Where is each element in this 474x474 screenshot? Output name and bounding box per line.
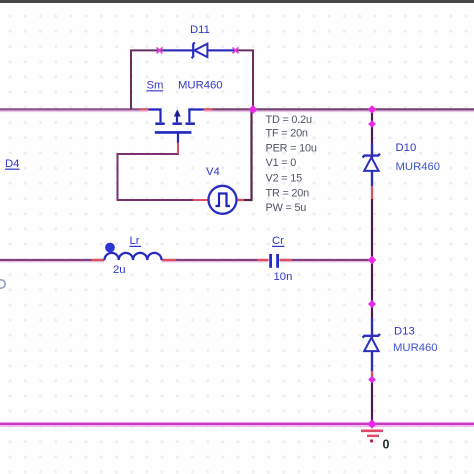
wire bottom net (y=424): [0, 424, 474, 426]
red gate pin segment: [177, 143, 179, 155]
capacitor Cr red pin stubs: [257, 259, 292, 261]
svg-text:PER = 10u: PER = 10u: [266, 142, 317, 154]
svg-text:D4: D4: [5, 158, 19, 170]
inductor Lr red pin stubs: [92, 259, 177, 261]
junction node (372,379.5): [368, 376, 376, 384]
label MUR460 for D13: [393, 342, 438, 354]
label 2u: [113, 264, 126, 276]
wire V4 right branch up to main net: [236, 110, 251, 201]
wire mid net (y=260): [0, 260, 372, 262]
diode D11 leads: [163, 49, 236, 51]
window top bar: [0, 0, 474, 3]
wire gate loop to V4: [118, 144, 209, 201]
label MUR460 for Sm: [178, 80, 223, 92]
wire D11 loop (left vertical, top horizontal, right vertical): [131, 50, 253, 109]
diode D11 cathode bar: [192, 43, 195, 59]
pin marker X left of D11: [157, 47, 163, 53]
junction node bottom (372,424): [367, 419, 376, 428]
label Lr (underlined): [130, 235, 142, 247]
junction node at V4 branch / D11 loop (253,109.5): [249, 105, 258, 114]
diode D10 cathode bar: [363, 154, 380, 158]
wire right vertical branch x=372: [371, 110, 373, 425]
wire main top net right segment (y=109.5): [204, 109, 474, 111]
clipped text glyph at left edge (mid net label): [0, 280, 5, 288]
diode D10 red bottom pin: [371, 186, 373, 199]
junction node (372,304): [368, 300, 376, 308]
svg-text:PW = 5u: PW = 5u: [266, 202, 307, 214]
label D13: [394, 326, 415, 338]
svg-text:MUR460: MUR460: [396, 161, 441, 173]
diode D10 triangle: [364, 157, 378, 171]
svg-text:Cr: Cr: [272, 235, 284, 247]
junction node mid net (372,260): [368, 256, 377, 265]
label 10n: [274, 271, 293, 283]
red V4 right pin segment: [236, 199, 244, 201]
label 0 (ground net): [383, 438, 390, 452]
inductor Lr coil: [105, 253, 162, 260]
red V4 left pin segment: [193, 199, 209, 201]
svg-text:V2 = 15: V2 = 15: [266, 172, 303, 184]
svg-text:V1 = 0: V1 = 0: [266, 157, 297, 169]
svg-text:D10: D10: [396, 142, 417, 154]
svg-text:V4: V4: [206, 166, 220, 178]
svg-text:Lr: Lr: [130, 235, 140, 247]
pin marker X right of D11: [233, 47, 239, 53]
diode D13 cathode bar: [363, 334, 380, 338]
mosfet Sm symbol: [148, 110, 204, 144]
svg-text:2u: 2u: [113, 264, 126, 276]
label MUR460 for D10: [396, 161, 441, 173]
svg-text:D13: D13: [394, 326, 415, 338]
label D11: [190, 24, 210, 36]
svg-text:MUR460: MUR460: [393, 342, 438, 354]
diode D13 red bottom pin: [371, 371, 373, 380]
label D4 (underlined, left edge): [5, 158, 20, 170]
label Sm (underlined): [147, 80, 164, 92]
label Cr (underlined): [272, 235, 285, 247]
mosfet Sm bulk arrow: [174, 109, 181, 116]
wire main top net left segment (y=109.5): [0, 109, 148, 111]
diode D13 leads: [371, 318, 373, 371]
svg-text:TD = 0.2u: TD = 0.2u: [266, 114, 312, 126]
diode D11 triangle: [194, 44, 207, 57]
svg-text:Sm: Sm: [147, 80, 164, 92]
svg-text:MUR460: MUR460: [178, 80, 223, 92]
svg-text:TR = 20n: TR = 20n: [266, 187, 310, 199]
pulse parameter text block: [266, 114, 317, 214]
node dot at Lr left: [105, 243, 115, 253]
label V4: [206, 166, 220, 178]
junction node right vertical top (372,109.5): [368, 105, 377, 114]
svg-text:10n: 10n: [274, 271, 293, 283]
diode D13 triangle: [364, 338, 378, 352]
junction node (372,124): [368, 120, 376, 128]
label D10: [396, 142, 417, 154]
mosfet Sm red pin stubs: [140, 109, 213, 111]
svg-text:TF = 20n: TF = 20n: [266, 127, 308, 139]
capacitor Cr plates: [271, 254, 278, 268]
diode D10 leads: [371, 143, 373, 186]
svg-text:D11: D11: [190, 24, 210, 36]
ground symbol 0: [361, 431, 383, 443]
source V4 circle: [209, 186, 237, 214]
svg-text:0: 0: [383, 438, 390, 452]
